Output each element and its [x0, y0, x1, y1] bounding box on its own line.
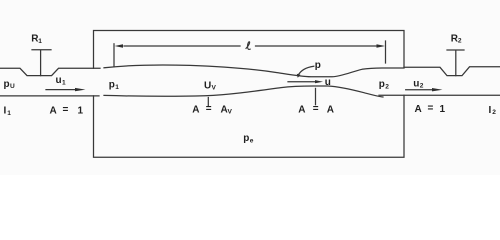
svg-text:A: A: [192, 104, 199, 115]
svg-text:=: =: [206, 103, 212, 114]
label R1: [31, 34, 42, 45]
wire: tract interior top wall: [104, 65, 404, 77]
svg-text:u: u: [413, 78, 419, 89]
svg-text:U: U: [10, 83, 15, 90]
svg-text:2: 2: [458, 38, 462, 45]
svg-text:=: =: [63, 105, 69, 116]
label script l: [246, 42, 250, 50]
arrow u1: [46, 89, 77, 91]
label I1: [4, 106, 12, 117]
svg-text:=: =: [428, 103, 434, 114]
resistor R1 symbol (T-piston in constriction): [32, 50, 51, 76]
leader tick A=Av: [207, 98, 209, 107]
label A = 1 (left): [50, 105, 84, 117]
svg-text:I: I: [489, 105, 492, 116]
svg-text:p: p: [4, 79, 10, 90]
svg-text:A: A: [50, 105, 57, 116]
dimension tick right: [385, 41, 387, 63]
svg-text:p: p: [379, 79, 385, 90]
label Uv: [204, 80, 217, 91]
svg-text:2: 2: [420, 83, 424, 90]
leader tick A=A: [315, 88, 317, 104]
wire: tract interior bottom wall: [104, 86, 383, 97]
svg-text:1: 1: [62, 79, 66, 86]
dimension arrowhead left: [115, 44, 124, 48]
svg-text:U: U: [204, 80, 211, 91]
label p (supraglottal pressure): [315, 60, 321, 71]
svg-text:2: 2: [385, 84, 389, 91]
svg-text:A: A: [327, 104, 334, 115]
wire: left duct top wall with constriction dip: [0, 68, 100, 75]
curved leader arrow from p to constriction: [298, 66, 314, 75]
svg-text:1: 1: [115, 84, 119, 91]
svg-text:1: 1: [38, 38, 42, 45]
svg-text:1: 1: [78, 105, 84, 116]
arrow u2: [406, 89, 434, 91]
label pU: [4, 79, 16, 90]
label p1: [109, 79, 120, 90]
outer enclosure box (p_e chamber): [94, 31, 405, 158]
dimension tick left: [113, 44, 115, 67]
label I2: [489, 105, 497, 116]
svg-text:2: 2: [492, 109, 496, 116]
label A = 1 (right): [415, 103, 446, 115]
svg-text:p: p: [243, 133, 249, 144]
svg-text:p: p: [315, 60, 321, 71]
svg-text:u: u: [56, 75, 62, 86]
wire: right duct top wall with constriction dip: [404, 67, 500, 76]
svg-text:A: A: [298, 104, 305, 115]
svg-text:A: A: [415, 104, 422, 115]
dimension arrowhead right: [377, 44, 386, 48]
label A = A (glottis): [298, 103, 334, 115]
label p2: [379, 79, 390, 90]
dimension line for l: [124, 45, 376, 47]
svg-text:u: u: [325, 77, 331, 88]
resistor R2 symbol (T-piston in constriction): [447, 50, 464, 76]
label R2: [451, 33, 462, 44]
label pe: [243, 133, 254, 144]
svg-text:p: p: [109, 79, 115, 90]
wire: right duct bottom wall: [379, 94, 500, 96]
arrow u at constriction: [288, 81, 315, 83]
svg-text:1: 1: [7, 110, 11, 117]
svg-text:I: I: [4, 106, 7, 117]
wire: left duct bottom wall: [0, 95, 99, 97]
svg-text:V: V: [228, 109, 233, 116]
label A = Av: [192, 103, 232, 115]
svg-text:V: V: [212, 85, 217, 92]
svg-text:e: e: [250, 137, 254, 144]
svg-text:=: =: [313, 103, 319, 114]
svg-text:1: 1: [440, 104, 446, 115]
